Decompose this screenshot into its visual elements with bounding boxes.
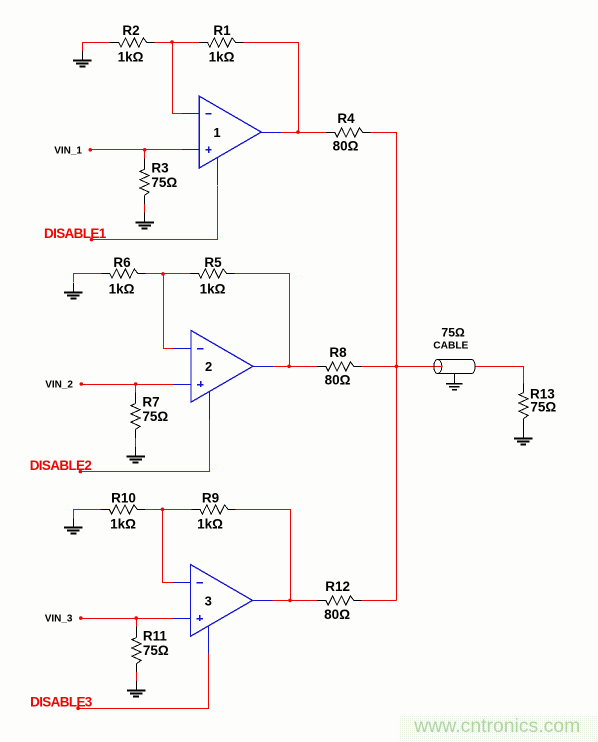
node R7 top junction	[134, 382, 138, 386]
wire R12 to bus	[362, 600, 397, 602]
ground G1b (R3)	[144, 213, 146, 223]
wire op-amp U2 output	[273, 366, 317, 368]
wire VIN_2 to op-amp U2 non-inverting input	[81, 384, 173, 386]
svg-text:R10: R10	[111, 490, 136, 505]
svg-text:75Ω: 75Ω	[530, 400, 556, 415]
svg-text:R2: R2	[122, 23, 139, 38]
cable W1 75-ohm coax symbol	[434, 360, 475, 374]
svg-text:CABLE: CABLE	[433, 340, 468, 351]
svg-text:VIN_1: VIN_1	[54, 145, 82, 156]
resistor R11	[136, 627, 138, 638]
resistor R2	[110, 38, 155, 47]
resistor R3	[144, 158, 146, 169]
wire output bus vertical	[396, 132, 398, 600]
wire VIN_1 to op-amp U1 non-inverting input	[90, 149, 182, 151]
node bus junction at stage 2 output	[395, 365, 399, 369]
node VIN_1	[89, 148, 93, 152]
resistor R1	[199, 38, 244, 47]
svg-text:www.cntronics.com: www.cntronics.com	[413, 715, 580, 737]
wire R1 to feedback vertical	[244, 43, 299, 133]
svg-text:VIN_3: VIN_3	[45, 614, 73, 625]
node output junction (stage 2)	[287, 365, 291, 369]
op-amp U2	[191, 330, 253, 402]
wire R10-R9	[145, 509, 191, 511]
wire R11 to ground	[136, 672, 138, 681]
wire R7 to ground	[135, 438, 137, 447]
wire R4 to bus	[371, 132, 397, 134]
wire op-amp U1 output	[281, 132, 326, 134]
svg-text:1: 1	[213, 125, 220, 140]
node feedback junction (stage 3)	[161, 508, 165, 512]
wire R8 to bus	[362, 366, 397, 368]
ground G2a (feedback)	[73, 283, 75, 292]
wire R3 to ground	[144, 204, 146, 213]
wire GND-R2 feedback rail (stage 1)	[83, 43, 111, 52]
ground G3b (R11)	[136, 681, 138, 691]
resistor R6	[101, 269, 146, 278]
svg-text:R11: R11	[143, 629, 168, 644]
svg-text:80Ω: 80Ω	[325, 373, 351, 388]
ground G2b (R7)	[135, 447, 137, 457]
svg-text:1kΩ: 1kΩ	[197, 517, 223, 532]
svg-text:VIN_2: VIN_2	[45, 380, 73, 391]
wire DISABLE1 to op-amp U1 enable pin	[92, 186, 218, 240]
svg-text:R9: R9	[202, 490, 219, 505]
svg-text:R8: R8	[329, 345, 347, 360]
svg-text:DISABLE1: DISABLE1	[44, 226, 107, 241]
wire bus to cable W1	[434, 360, 475, 374]
node output junction (stage 1)	[296, 130, 300, 134]
svg-text:3: 3	[205, 593, 212, 608]
svg-text:1kΩ: 1kΩ	[209, 49, 235, 64]
wire GND-R10 feedback rail (stage 3)	[74, 510, 101, 519]
wire GND-R6 feedback rail (stage 2)	[74, 274, 102, 283]
wire DISABLE2 to op-amp U2 enable pin	[81, 420, 210, 472]
wire R6-R5	[146, 273, 190, 275]
ground G3a (feedback)	[73, 518, 75, 527]
node feedback junction (stage 2)	[161, 272, 165, 276]
svg-text:R5: R5	[204, 255, 222, 270]
resistor R10	[101, 505, 146, 514]
svg-text:DISABLE2: DISABLE2	[30, 458, 92, 473]
svg-text:75Ω: 75Ω	[441, 325, 465, 339]
wire VIN_3 to op-amp U3 non-inverting input	[81, 618, 173, 620]
node feedback junction (stage 1)	[170, 40, 174, 44]
ground G-cable	[454, 374, 456, 384]
svg-text:1kΩ: 1kΩ	[118, 49, 144, 64]
wire junction to op-amp U1 inverting input	[173, 43, 183, 114]
svg-text:DISABLE3: DISABLE3	[30, 695, 93, 710]
svg-text:2: 2	[205, 359, 212, 374]
node VIN_3	[79, 616, 83, 620]
node DISABLE3	[76, 707, 80, 711]
wire R7 top lead	[135, 384, 137, 393]
node R3 top junction	[143, 148, 147, 152]
node R11 top junction	[134, 616, 138, 620]
node output junction (stage 3)	[288, 599, 292, 603]
svg-text:1kΩ: 1kΩ	[200, 281, 226, 296]
op-amp U1	[199, 96, 261, 168]
svg-text:R3: R3	[151, 160, 169, 175]
resistor R8	[317, 362, 362, 371]
resistor R9	[191, 505, 236, 514]
wire R2-R1	[155, 42, 199, 44]
svg-text:R1: R1	[213, 23, 231, 38]
node DISABLE2	[79, 470, 83, 474]
op-amp U3	[191, 565, 253, 637]
wire op-amp U3 output	[273, 600, 318, 602]
wire junction to op-amp U2 inverting input	[164, 274, 174, 349]
svg-text:1kΩ: 1kΩ	[109, 281, 135, 296]
wire R3 top lead	[144, 150, 146, 159]
resistor R5	[190, 269, 235, 278]
svg-text:75Ω: 75Ω	[151, 175, 177, 190]
node VIN_2	[80, 382, 84, 386]
svg-text:80Ω: 80Ω	[324, 607, 350, 622]
wire R9 to feedback vertical	[236, 510, 291, 601]
wire DISABLE3 to op-amp U3 enable pin	[79, 654, 209, 709]
ground G-R13	[523, 430, 525, 439]
svg-text:1kΩ: 1kΩ	[110, 517, 136, 532]
wire junction to op-amp U3 inverting input	[163, 510, 174, 583]
svg-text:R12: R12	[325, 579, 350, 594]
wire R11 top lead	[136, 618, 138, 627]
svg-text:R6: R6	[113, 255, 131, 270]
watermark dotted background	[400, 716, 598, 742]
resistor R4	[326, 128, 371, 137]
wire R5 to feedback vertical	[235, 274, 290, 367]
node DISABLE1	[90, 238, 94, 242]
resistor R13	[523, 384, 525, 393]
resistor R7	[135, 393, 137, 404]
wire cable W1 to R13	[476, 367, 524, 384]
svg-text:R4: R4	[337, 111, 355, 126]
svg-text:75Ω: 75Ω	[143, 643, 169, 658]
svg-text:80Ω: 80Ω	[333, 139, 359, 154]
resistor R12	[317, 596, 362, 605]
ground G1a (feedback)	[82, 51, 84, 60]
svg-text:R7: R7	[142, 395, 159, 410]
svg-text:75Ω: 75Ω	[142, 409, 168, 424]
